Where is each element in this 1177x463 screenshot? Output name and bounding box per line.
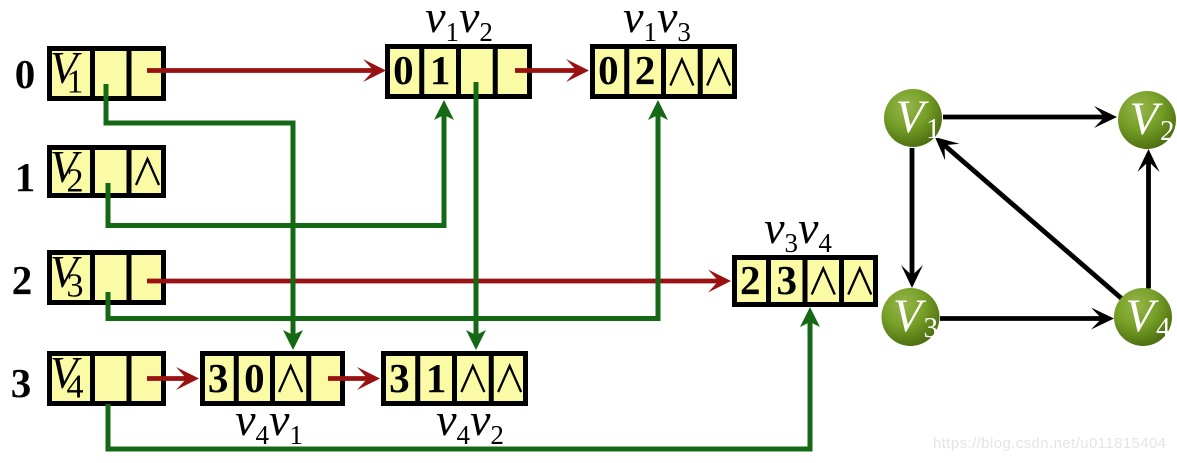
arc node v3v4 (tail 2, head 3, null links) <box>735 257 876 305</box>
green arrowhead into v1v3 bottom <box>648 100 668 120</box>
svg-text:3: 3 <box>924 312 939 344</box>
green arrowhead into v4v1 top <box>283 330 303 350</box>
svg-text:3: 3 <box>67 268 84 305</box>
graph edge V1->V3 <box>910 148 915 277</box>
arc node v1v3 (tail 0, head 2, null links) <box>593 47 735 97</box>
svg-text:4: 4 <box>1156 312 1171 344</box>
green arrowhead into v3v4 bottom <box>800 307 820 327</box>
vertex node V3 <box>50 247 164 305</box>
svg-text:1: 1 <box>15 154 36 200</box>
vertex node V2 with null firstout <box>50 142 164 200</box>
red arrow v1v2 tlink to v1v3 <box>515 68 578 73</box>
arc node v4v2 (tail 3, head 1, null links) <box>384 354 526 404</box>
graph vertex V3 <box>882 288 940 346</box>
graph edge V4->V1 diagonal <box>943 144 1121 298</box>
arc node v4v1 (tail 3, head 0, null hlink) <box>203 354 343 404</box>
green arrowhead into v1v2 bottom <box>434 100 454 120</box>
svg-text:2: 2 <box>635 47 656 93</box>
svg-text:2: 2 <box>740 257 761 303</box>
graph edge V3->V4 <box>940 316 1103 321</box>
graph vertex V2 <box>1118 91 1176 149</box>
svg-text:3: 3 <box>777 257 798 303</box>
svg-text:0: 0 <box>598 47 619 93</box>
green arrowhead into v4v2 top <box>466 330 486 350</box>
red arrow v4v1 tlink to v4v2 <box>328 376 369 381</box>
svg-text:1: 1 <box>67 64 84 101</box>
vertex node V4 <box>50 348 164 406</box>
svg-text:https://blog.csdn.net/u0118154: https://blog.csdn.net/u011815404 <box>933 435 1167 452</box>
red arrow V1 firstout to v1v2 <box>147 68 375 73</box>
svg-text:2: 2 <box>12 257 33 303</box>
svg-text:0: 0 <box>393 47 414 93</box>
vertex node V1 (data|firstin|firstout) <box>50 43 164 101</box>
arc node v1v2 (tail 0, head 1) <box>388 47 530 97</box>
green wire V2 firstin down-right-up <box>108 112 444 226</box>
green wire v1v2 hlink straight down <box>474 82 479 339</box>
graph edge V4->V2 <box>1146 160 1151 289</box>
green wire V4 firstin down-right-up <box>108 319 810 449</box>
svg-text:2: 2 <box>1160 115 1175 147</box>
green wire V3 firstin down-right-up <box>108 112 658 319</box>
graph vertex V4 <box>1114 288 1172 346</box>
graph vertex V1 <box>884 89 942 147</box>
red arrow V4 firstout to v4v1 <box>147 376 188 381</box>
svg-text:3: 3 <box>389 355 410 401</box>
red arrow V3 firstout to v3v4 <box>147 279 720 284</box>
graph edge V1->V2 <box>943 115 1106 120</box>
green wire V1 firstin down-right-down <box>106 84 293 339</box>
svg-text:3: 3 <box>208 355 229 401</box>
svg-text:2: 2 <box>67 163 84 200</box>
svg-text:1: 1 <box>926 113 941 145</box>
svg-text:3: 3 <box>11 360 32 406</box>
svg-text:4: 4 <box>67 369 84 406</box>
svg-text:0: 0 <box>15 51 36 97</box>
svg-text:1: 1 <box>430 47 451 93</box>
